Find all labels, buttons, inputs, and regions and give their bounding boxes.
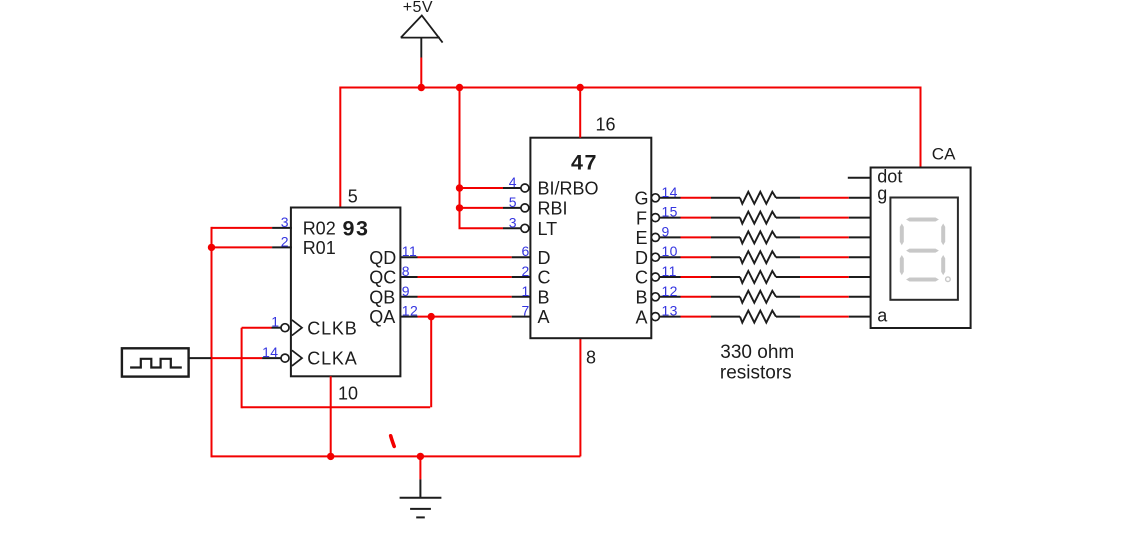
svg-text:C: C	[635, 268, 648, 288]
wire LT feed vertical	[459, 88, 461, 229]
svg-text:12: 12	[402, 303, 418, 319]
wire 93 pin11 to 47 pin6	[418, 256, 512, 258]
svg-text:D: D	[538, 248, 551, 268]
pin stub 47 output 11	[659, 276, 681, 278]
CLKB bubble	[281, 324, 289, 332]
pin stub display dot	[848, 177, 871, 179]
svg-text:B: B	[635, 288, 647, 308]
svg-text:11: 11	[402, 243, 417, 259]
pin stub 93 Q out pin 8	[400, 276, 417, 278]
svg-text:CLKB: CLKB	[307, 318, 357, 338]
pin stub 93 pin2 R01	[272, 246, 292, 248]
decoder U2 7447 body	[530, 138, 651, 339]
wire reset net vertical	[211, 227, 213, 458]
wire 47 pin10 to R4	[681, 256, 712, 258]
wire 47 pin12 to R6	[681, 296, 712, 298]
svg-text:QB: QB	[369, 287, 395, 307]
svg-text:12: 12	[662, 283, 678, 299]
wire R5 to display c	[800, 276, 849, 278]
pin stub CLKA	[262, 357, 281, 359]
bubble 47 output pin 14	[651, 194, 659, 202]
svg-text:15: 15	[662, 204, 678, 220]
svg-text:3: 3	[281, 214, 289, 230]
wire R3 to display e	[800, 236, 849, 238]
bubble 47 output pin 12	[651, 293, 659, 301]
junction ground symbol	[417, 453, 424, 460]
pin stub 47 data pin 7	[512, 316, 532, 318]
digit window	[890, 198, 958, 300]
pin stub 47 output 9	[659, 236, 681, 238]
svg-text:RBI: RBI	[538, 199, 568, 219]
pin stub 47 data pin 1	[512, 296, 532, 298]
wire R4 to display d	[800, 256, 849, 258]
digit segment f	[900, 224, 904, 246]
pin stub 47 pin 4	[503, 187, 521, 189]
digit decimal point	[946, 277, 951, 282]
wire 47 pin16 to bus	[579, 88, 581, 138]
pin stub 47 data pin 2	[512, 276, 532, 278]
svg-text:10: 10	[338, 383, 358, 403]
wire 47 pin9 to R3	[681, 236, 712, 238]
svg-text:resistors: resistors	[720, 362, 792, 383]
svg-text:5: 5	[509, 194, 517, 210]
CLKB clock arrow	[292, 320, 302, 336]
junction bus/7447-LT feed	[456, 84, 463, 91]
svg-text:8: 8	[402, 263, 410, 279]
wire R02 to reset net	[212, 227, 273, 229]
svg-text:9: 9	[662, 223, 670, 239]
wire R2 to display f	[800, 217, 849, 219]
svg-text:1: 1	[271, 314, 279, 330]
junction QA feedback	[428, 313, 435, 320]
svg-text:14: 14	[662, 184, 678, 200]
svg-text:QD: QD	[369, 248, 396, 268]
CLKA bubble	[281, 354, 289, 362]
pin stub display f	[849, 217, 871, 219]
svg-text:B: B	[538, 287, 550, 307]
svg-text:14: 14	[262, 344, 278, 360]
wire 47 pin14 to R1	[681, 197, 712, 199]
pin stub 47 pin 5	[503, 207, 521, 209]
svg-text:+5V: +5V	[403, 0, 433, 16]
svg-text:5: 5	[348, 186, 358, 206]
wire ground rail	[212, 455, 581, 457]
resistor R7 330 ohm	[711, 311, 800, 323]
resistor R4 330 ohm	[711, 251, 800, 263]
svg-text:13: 13	[662, 303, 678, 319]
wire 93 pin12 to 47 pin7	[418, 316, 512, 318]
svg-text:11: 11	[662, 263, 677, 279]
wire QA feedback up	[241, 328, 243, 409]
svg-text:CA: CA	[932, 145, 956, 164]
pin stub 93 Q out pin 11	[400, 256, 417, 258]
wire +5V stem (red)	[420, 58, 422, 88]
clock source square-wave generator	[122, 348, 189, 376]
digit segment d	[906, 278, 939, 282]
svg-text:CLKA: CLKA	[307, 349, 357, 369]
wire R6 to display b	[800, 296, 849, 298]
svg-text:47: 47	[571, 150, 598, 174]
wire 47 pin13 to R7	[681, 316, 712, 318]
digit segment a	[906, 218, 939, 222]
digit segment g	[906, 249, 939, 253]
svg-text:16: 16	[596, 114, 616, 134]
junction +5V/bus	[418, 84, 425, 91]
pin stub 93 Q out pin 9	[400, 296, 417, 298]
wire 47 pin8 to ground rail	[579, 338, 581, 456]
pin stub 47 output 12	[659, 296, 681, 298]
junction bus/7447 pin16	[577, 84, 584, 91]
resistor R3 330 ohm	[711, 231, 800, 243]
svg-text:93: 93	[343, 216, 370, 240]
CLKA clock arrow	[292, 350, 302, 366]
clock output lead	[189, 357, 211, 359]
wire feed to pin5	[460, 207, 504, 209]
svg-text:7: 7	[522, 303, 530, 319]
pin stub 93 Q out pin 12	[400, 316, 417, 318]
svg-text:6: 6	[522, 243, 530, 259]
svg-text:D: D	[635, 248, 648, 268]
display body (common anode 7-segment)	[871, 168, 971, 329]
pin stub 47 output 15	[659, 217, 681, 219]
pin stub 47 data pin 6	[512, 256, 532, 258]
junction feed/pin4	[456, 184, 463, 191]
bubble 47 pin 3	[521, 224, 529, 232]
svg-text:C: C	[538, 268, 551, 288]
svg-text:F: F	[636, 208, 647, 228]
svg-text:BI/RBO: BI/RBO	[538, 179, 599, 199]
pin stub display b	[849, 296, 871, 298]
svg-text:E: E	[635, 228, 647, 248]
counter U1 7493 body	[291, 208, 401, 377]
pin stub 47 output 13	[659, 316, 681, 318]
pin stub display d	[849, 256, 871, 258]
wire VCC bus (top rail to 93 pin5 and display CA)	[340, 88, 920, 208]
wire 93 pin9 to 47 pin1	[418, 296, 512, 298]
wire R1 to display g	[800, 197, 849, 199]
junction reset/R01	[208, 244, 215, 251]
svg-text:9: 9	[402, 283, 410, 299]
wire 93 pin10 to ground rail	[330, 376, 332, 456]
svg-text:LT: LT	[538, 219, 558, 239]
bubble 47 pin 5	[521, 204, 529, 212]
svg-text:A: A	[635, 307, 647, 327]
junction pin10/ground rail	[327, 453, 334, 460]
wire feedback to CLKB	[242, 327, 272, 329]
digit segment b	[941, 224, 945, 246]
bubble 47 output pin 10	[651, 253, 659, 261]
wire LT feed to pin3	[459, 227, 504, 229]
wire feed to pin4	[460, 187, 504, 189]
wire R7 to display a	[800, 316, 849, 318]
wire 47 pin11 to R5	[681, 276, 712, 278]
svg-text:g: g	[877, 183, 887, 203]
resistor R5 330 ohm	[711, 271, 800, 283]
wire clock to CLKA	[211, 357, 262, 359]
svg-text:2: 2	[522, 263, 530, 279]
+5V power symbol VCC	[401, 16, 443, 58]
svg-text:330 ohm: 330 ohm	[720, 342, 794, 363]
svg-text:QA: QA	[369, 307, 395, 327]
pin stub CLKB	[272, 327, 282, 329]
svg-text:8: 8	[586, 347, 596, 367]
wire 47 pin15 to R2	[681, 217, 712, 219]
svg-text:3: 3	[509, 214, 517, 230]
svg-text:1: 1	[522, 283, 530, 299]
pin stub display e	[849, 236, 871, 238]
digit segment c	[941, 255, 945, 275]
pin stub 47 output 14	[659, 197, 681, 199]
resistor R1 330 ohm	[711, 192, 800, 204]
pin stub display c	[849, 276, 871, 278]
wire R01 to reset net	[213, 246, 273, 248]
bubble 47 output pin 11	[651, 273, 659, 281]
pin stub display g	[849, 197, 871, 199]
bubble 47 output pin 13	[651, 313, 659, 321]
digit segment e	[900, 255, 904, 275]
svg-text:2: 2	[281, 233, 289, 249]
pin stub display a	[849, 316, 871, 318]
bubble 47 pin 4	[521, 184, 529, 192]
pin stub 47 pin 3	[503, 227, 521, 229]
junction feed/pin5	[456, 204, 463, 211]
stray red pen mark	[391, 436, 395, 447]
svg-text:a: a	[877, 305, 888, 325]
pin stub 93 pin3 R02	[272, 227, 292, 229]
svg-text:A: A	[538, 307, 550, 327]
svg-text:10: 10	[662, 243, 678, 259]
wire QA feedback down	[430, 317, 432, 408]
ground symbol	[400, 456, 442, 517]
wire QA feedback across	[242, 406, 431, 408]
bubble 47 output pin 9	[651, 233, 659, 241]
svg-text:4: 4	[509, 174, 517, 190]
resistor R2 330 ohm	[711, 212, 800, 224]
svg-text:G: G	[634, 189, 648, 209]
svg-text:QC: QC	[369, 268, 396, 288]
svg-text:R02: R02	[303, 219, 336, 239]
wire 93 pin8 to 47 pin2	[418, 276, 512, 278]
bubble 47 output pin 15	[651, 214, 659, 222]
resistor R6 330 ohm	[711, 291, 800, 303]
svg-text:R01: R01	[303, 238, 336, 258]
pin stub 47 output 10	[659, 256, 681, 258]
